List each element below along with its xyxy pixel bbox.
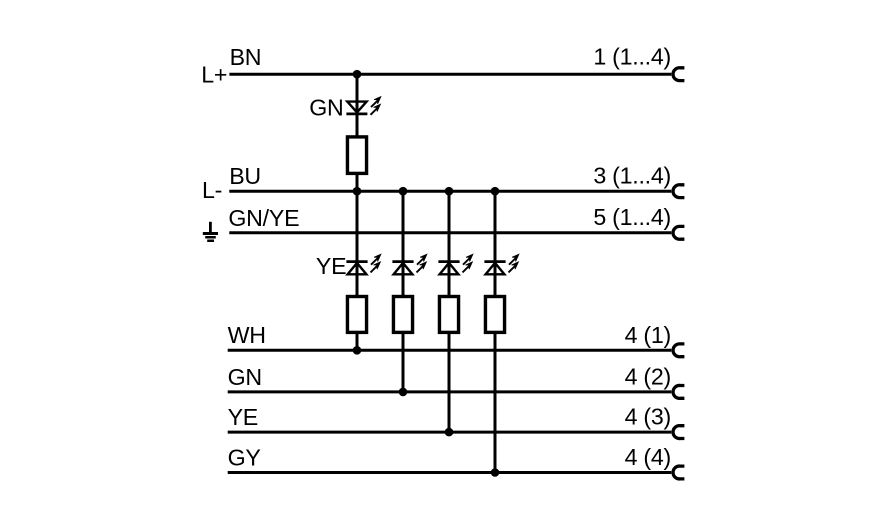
svg-text:GN/YE: GN/YE (228, 205, 299, 231)
LED YE2 (392, 254, 427, 274)
svg-text:GN: GN (228, 364, 262, 390)
junction on L+ (353, 70, 362, 79)
svg-text:4 (2): 4 (2) (625, 364, 671, 390)
wire vertical branch 3 (448, 191, 451, 432)
wire WH (pin 4 (1)) (228, 349, 672, 352)
resistor R5 (branch 4) (485, 297, 504, 333)
svg-text:L+: L+ (201, 62, 227, 88)
svg-text:BN: BN (230, 44, 262, 70)
wire vertical branch 2 (402, 191, 405, 392)
wire GN (pin 4 (2)) (228, 390, 672, 393)
wire YE (pin 4 (3)) (228, 431, 672, 434)
svg-text:BU: BU (229, 163, 261, 189)
svg-text:5 (1...4): 5 (1...4) (593, 204, 671, 230)
connector pin 5 (673, 226, 684, 239)
svg-text:1 (1...4): 1 (1...4) (593, 44, 671, 70)
connector pin 4 (2) (673, 385, 684, 398)
svg-text:3 (1...4): 3 (1...4) (593, 162, 671, 188)
junction GY (491, 468, 500, 477)
connector pin 4 (4) (673, 466, 684, 479)
ground (203, 222, 218, 241)
connector pin 1 (673, 68, 684, 81)
LED YE4 (484, 254, 519, 274)
junction L- branch 1 (353, 187, 362, 196)
svg-text:4 (4): 4 (4) (625, 444, 671, 470)
svg-text:YE: YE (316, 253, 346, 279)
resistor R1 (green LED branch) (347, 137, 366, 174)
junction GN (399, 388, 408, 397)
junction WH (353, 346, 362, 355)
svg-text:4 (3): 4 (3) (625, 404, 671, 430)
LED YE1 (346, 254, 381, 274)
wire L+ / BN (pin 1) (229, 73, 671, 76)
connector pin 3 (673, 185, 684, 198)
resistor R4 (branch 3) (439, 297, 458, 333)
junction L- branch 4 (491, 187, 500, 196)
svg-text:GY: GY (228, 444, 261, 470)
junction YE (445, 428, 454, 437)
svg-text:L-: L- (202, 177, 222, 203)
wire L- / BU (pin 3) (229, 190, 671, 193)
LED GN (cathode down) (346, 97, 381, 115)
connector pin 4 (3) (673, 426, 684, 439)
svg-text:GN: GN (309, 94, 343, 120)
wire vertical branch 4 (494, 191, 497, 472)
wire vertical branch 1 (356, 74, 359, 350)
svg-text:4 (1): 4 (1) (625, 322, 671, 348)
junction L- branch 2 (399, 187, 408, 196)
svg-text:YE: YE (228, 404, 258, 430)
connector pin 4 (1) (673, 344, 684, 357)
svg-text:WH: WH (228, 322, 266, 348)
wire GN/YE (pin 5) (229, 231, 671, 234)
LED YE3 (438, 254, 473, 274)
resistor R2 (branch 1) (347, 297, 366, 333)
wire GY (pin 4 (4)) (228, 471, 672, 474)
resistor R3 (branch 2) (393, 297, 412, 333)
junction L- branch 3 (445, 187, 454, 196)
